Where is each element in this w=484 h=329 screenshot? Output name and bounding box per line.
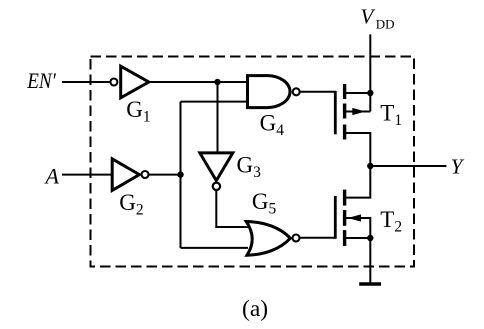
- svg-text:DD: DD: [376, 17, 395, 32]
- svg-text:EN′: EN′: [26, 70, 56, 93]
- svg-text:A: A: [44, 163, 60, 188]
- svg-text:(a): (a): [242, 296, 268, 322]
- svg-text:V: V: [361, 5, 376, 29]
